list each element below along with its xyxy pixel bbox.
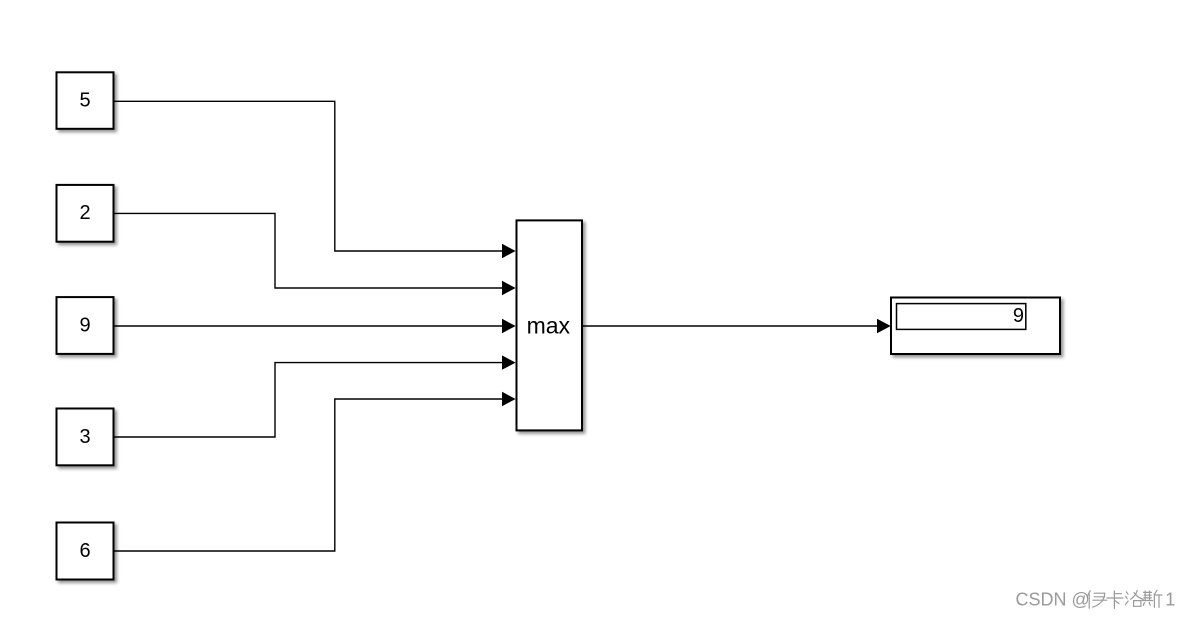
svg-text:9: 9 <box>1013 305 1024 327</box>
svg-text:CSDN @: CSDN @ <box>1016 590 1090 610</box>
svg-text:1: 1 <box>1165 590 1175 610</box>
svg-text:5: 5 <box>79 89 90 111</box>
svg-text:6: 6 <box>79 540 90 562</box>
svg-text:9: 9 <box>79 314 90 336</box>
svg-text:3: 3 <box>79 426 90 448</box>
svg-text:2: 2 <box>79 202 90 224</box>
svg-text:max: max <box>527 312 571 338</box>
